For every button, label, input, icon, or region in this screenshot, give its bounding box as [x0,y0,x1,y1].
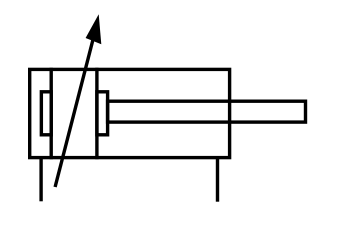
cushion box right [97,92,108,135]
port line right [216,158,219,202]
adjustment arrow shaft [55,22,97,187]
cushion box left [41,92,51,135]
port line left [39,158,42,202]
adjustment arrow head [86,14,102,44]
piston face right [95,68,98,160]
piston face left [50,68,53,160]
piston rod [108,101,306,122]
cylinder body [30,69,230,157]
